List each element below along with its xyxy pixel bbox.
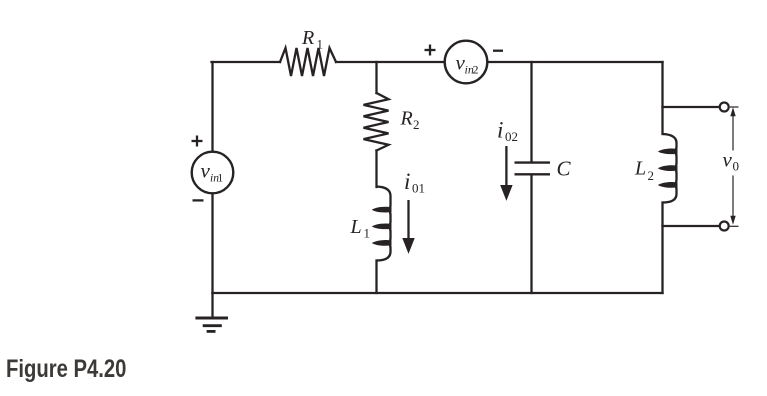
svg-text:01: 01 <box>412 181 425 196</box>
svg-text:1: 1 <box>364 226 371 241</box>
svg-text:i: i <box>497 118 503 143</box>
svg-text:1: 1 <box>317 37 324 52</box>
svg-text:i: i <box>404 169 410 194</box>
svg-text:2: 2 <box>413 117 420 132</box>
svg-text:0: 0 <box>733 159 740 174</box>
svg-text:02: 02 <box>505 129 518 144</box>
svg-text:C: C <box>557 157 572 181</box>
svg-text:R: R <box>400 108 413 130</box>
svg-text:R: R <box>301 27 314 49</box>
svg-text:L: L <box>634 158 646 180</box>
svg-text:2: 2 <box>648 168 655 183</box>
svg-text:v: v <box>201 159 211 183</box>
svg-text:1: 1 <box>218 173 224 185</box>
svg-text:2: 2 <box>473 63 479 77</box>
svg-text:v: v <box>723 148 733 172</box>
svg-text:L: L <box>350 216 362 238</box>
